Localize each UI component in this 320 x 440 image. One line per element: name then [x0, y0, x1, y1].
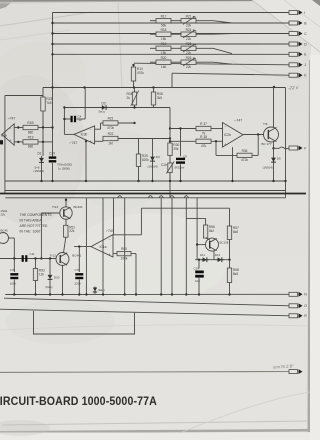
junction C7a / C11 line [13, 257, 15, 259]
svg-text:O: O [304, 304, 307, 308]
capacitor C4 [71, 116, 77, 122]
svg-text:−: − [10, 126, 12, 130]
svg-text:1M: 1M [108, 141, 113, 145]
diode D13 (phase) [93, 288, 97, 292]
wire IC2b output to Tr6 base [243, 134, 264, 136]
resistor R24 (preset) [181, 28, 196, 41]
junction rail A [272, 180, 274, 182]
wire rail G to connector R [0, 309, 289, 316]
connector pin J [289, 62, 306, 67]
wire vertical x161 [160, 198, 162, 295]
resistor R58 [227, 268, 239, 283]
junction diode line / C19 [198, 259, 200, 261]
resistor R13 [131, 67, 144, 81]
wire R53 to rail E [35, 281, 37, 295]
wire row R20 left stub [150, 61, 156, 63]
junction rail E [49, 293, 51, 295]
svg-text:22k: 22k [1, 213, 6, 217]
wire elbow up to R21 line [100, 123, 102, 129]
junction C9 / R37 line [179, 127, 181, 129]
svg-text:C11: C11 [30, 252, 35, 256]
resistor R21 [103, 117, 118, 130]
svg-text:(fase): (fase) [98, 288, 105, 292]
wire to C4 [64, 118, 70, 120]
op-amp IC1a [91, 229, 114, 257]
connector pin D [289, 42, 307, 47]
diode D1 [39, 156, 44, 165]
svg-text:100n: 100n [10, 282, 17, 286]
wire row7 drop to -22v rail [171, 73, 173, 87]
svg-text:3k5: 3k5 [157, 96, 162, 100]
svg-text:−: − [90, 127, 92, 131]
wire C11 line to Tr12 base [0, 258, 56, 260]
junction on left bus line E [51, 53, 53, 55]
svg-text:15k: 15k [161, 37, 167, 41]
wire R04 to D3 line [134, 105, 136, 108]
svg-text:R22: R22 [108, 132, 114, 136]
svg-text:+: + [90, 140, 92, 144]
junction row6 / R13 [132, 64, 134, 66]
junction R1B line / R23 branch [42, 126, 44, 128]
svg-text:R21: R21 [108, 117, 114, 121]
wire to connector B [53, 22, 290, 24]
svg-text:R19: R19 [161, 42, 167, 46]
resistor R51 [64, 225, 76, 237]
junction rail E [198, 293, 200, 295]
junction rail E [102, 293, 104, 295]
svg-text:15k: 15k [161, 51, 167, 55]
junction on left bus line D [51, 43, 53, 45]
wire IC1b to R1B [14, 127, 23, 129]
junction base bus / C11 line [40, 257, 42, 259]
wire row R24 join [213, 33, 232, 36]
junction rail E [185, 293, 187, 295]
svg-text:J: J [304, 63, 306, 67]
svg-text:(1N914): (1N914) [263, 165, 273, 169]
junction output / C7b [78, 245, 80, 247]
svg-text:R36: R36 [242, 149, 248, 153]
wire IC3b output to C4 loop [64, 133, 74, 135]
wire to connector E [53, 53, 290, 55]
wire R23 to D1 [42, 111, 44, 156]
svg-text:7k5: 7k5 [46, 101, 51, 105]
svg-text:R26: R26 [186, 56, 192, 60]
wire loop down to R57 [229, 208, 231, 226]
resistor R56 [203, 225, 215, 238]
wire rail to R04 [134, 88, 136, 93]
svg-text:10u: 10u [195, 279, 200, 283]
wire IC1a output to Tr12 side [74, 246, 91, 248]
svg-text:R05: R05 [121, 247, 127, 251]
transistor Tr13 [60, 207, 72, 219]
wire R58 to rail E [229, 283, 231, 295]
junction rail E [135, 293, 137, 295]
wire branch to R25 [138, 139, 140, 155]
wire feedback to R36 [216, 154, 237, 156]
wire rail C thick (y193.5) [0, 193, 306, 195]
wire R13 to -22V rail [133, 81, 135, 88]
wire C7b to rail E [78, 280, 80, 295]
capacitor C9 [176, 158, 185, 164]
wire down to C7a [13, 238, 15, 272]
wire loop across to R57 branch [141, 207, 229, 209]
wire IC3b inverting input right [95, 128, 101, 130]
wire branch to R56 top [186, 217, 205, 219]
wire to connector J row6 [134, 63, 289, 65]
svg-text:(1N914): (1N914) [34, 169, 44, 173]
svg-text:R20: R20 [161, 56, 167, 60]
wire top stub to R23 branch [5, 95, 43, 97]
wire row R26 right [196, 61, 213, 63]
wire C19b to rail E [198, 277, 200, 295]
svg-text:IC2b: IC2b [224, 133, 231, 137]
wire R21 to R04 branch [118, 122, 135, 124]
wire R23 top [42, 88, 44, 98]
svg-text:I: I [304, 11, 305, 15]
resistor R55 [117, 247, 131, 260]
wire D3 line to center bus [154, 107, 171, 109]
junction rail E [61, 293, 63, 295]
wire to connector C [53, 33, 290, 35]
wire row R25 join [213, 48, 232, 53]
wire R57 to R58 [229, 240, 231, 269]
svg-text:C19: C19 [49, 152, 55, 156]
resistor R1B [23, 121, 38, 134]
wire R19 to R25 [171, 47, 181, 49]
wire center vertical bus [169, 108, 171, 198]
svg-text:D12: D12 [215, 253, 221, 257]
junction emitter node [272, 147, 274, 149]
junction on R19 line [17, 141, 19, 143]
wire R19 to bus [38, 141, 53, 143]
junction rail A [40, 180, 42, 182]
resistor R19 [23, 136, 38, 149]
wire rail E (y294.5) [5, 293, 289, 295]
wire R55 branch to rail E [135, 254, 137, 295]
diode D12 [216, 257, 225, 262]
svg-text:+: + [10, 139, 12, 143]
svg-text:⌐747: ⌐747 [235, 119, 243, 123]
junction D3 line corner [63, 106, 65, 108]
preset R31 [161, 162, 174, 174]
junction center bus / R38 line [169, 140, 171, 142]
svg-text:D5: D5 [277, 157, 281, 161]
junction on left bus line C [51, 32, 53, 34]
wire center bus to R37 [170, 128, 196, 130]
wire down to D10 [49, 259, 51, 274]
svg-text:IC1b: IC1b [1, 134, 8, 138]
connector pin O [289, 303, 307, 308]
wire IC3b non-inverting input right [95, 140, 103, 142]
wire row R18 left stub [150, 33, 156, 35]
paper blotches [0, 75, 85, 225]
wire top-left vertical bus [52, 13, 54, 157]
wire row R17 left stub [150, 20, 156, 22]
svg-text:(1N914): (1N914) [148, 165, 158, 169]
svg-text:BC108: BC108 [220, 241, 229, 245]
op-amp IC2b triangle [223, 119, 244, 148]
svg-text:47k: 47k [201, 144, 207, 148]
svg-text:BC461: BC461 [74, 205, 84, 209]
svg-text:R1B: R1B [27, 121, 33, 125]
wire base bus down [40, 213, 42, 259]
pad at page edge [0, 140, 3, 144]
wire down to IC3b output [63, 108, 65, 135]
transistor Q15 at page edge [0, 233, 9, 244]
svg-text:R18: R18 [161, 28, 167, 32]
resistor R57 [227, 226, 239, 240]
wire vertical x103 [102, 198, 104, 295]
wire row R21 right [196, 20, 213, 22]
svg-text:⌐747: ⌐747 [106, 229, 114, 233]
wire D5 to rail [273, 165, 275, 182]
wire row R19 left stub [150, 47, 156, 49]
svg-text:Tr13: Tr13 [52, 205, 59, 209]
junction diode line / R57-R58 [228, 259, 230, 261]
resistor R23 [41, 97, 53, 111]
note text block [20, 213, 53, 234]
diode D4 [150, 155, 155, 164]
connector pin B [289, 21, 307, 26]
junction base / x197 vertical [196, 243, 198, 245]
wire rail D (y197.8) [5, 197, 285, 199]
junction R04 / D3 line [133, 106, 135, 108]
junction rail A [284, 180, 286, 182]
wire D3 line [64, 107, 153, 109]
svg-text:100k: 100k [121, 256, 128, 260]
diode D11 [201, 257, 210, 262]
wire feedback right leg [257, 135, 259, 156]
wire R55 stub [131, 253, 136, 255]
op-amp IC3b [70, 126, 95, 145]
diode D5 [271, 156, 276, 165]
svg-text:6k8: 6k8 [233, 272, 238, 276]
transistor Tr6 [264, 127, 279, 142]
svg-text:D11: D11 [200, 253, 205, 257]
wire IC1b to R19 [14, 141, 23, 143]
resistor R26 (preset) [181, 56, 196, 69]
wire preset R31 to rail [169, 173, 171, 182]
svg-text:R21: R21 [186, 14, 192, 18]
svg-text:+: + [109, 252, 111, 256]
wire C9 to rail [180, 164, 182, 181]
junction -22V rail / R13 branch [133, 86, 135, 88]
resistor R38 [196, 135, 211, 148]
wire R38 to IC2b non-inverting input [211, 140, 223, 142]
svg-text:⌐747: ⌐747 [8, 117, 16, 121]
resistor R18 [156, 28, 171, 41]
svg-text:29k: 29k [173, 147, 179, 151]
wire R17 to R21 [171, 20, 181, 22]
junction rail A [169, 180, 171, 182]
junction on R1B line [17, 126, 19, 128]
svg-text:R 37: R 37 [200, 122, 207, 126]
wire C9 top [180, 129, 182, 157]
wire to R56 [205, 218, 207, 225]
connector pin S [289, 369, 303, 374]
wire vertical x186 [185, 198, 187, 295]
svg-text:+: + [224, 142, 226, 146]
resistor R19 [156, 42, 171, 55]
junction rail A [179, 180, 181, 182]
wire C4 to rail branch [77, 118, 86, 120]
junction on IC3b drop [85, 140, 87, 142]
wire D10 to rail E [49, 282, 51, 295]
junction rail A [151, 180, 153, 182]
junction rail E [160, 293, 162, 295]
wire down to R53 [35, 259, 37, 269]
svg-text:22k: 22k [186, 51, 192, 55]
junction -22V rail / R08 branch [152, 86, 154, 88]
wire C19a to rail [52, 163, 54, 181]
svg-text:22k: 22k [186, 37, 192, 41]
wire elbow to R22 [102, 139, 104, 142]
op-amp IC1b [1, 117, 16, 146]
transistor Tr14 [206, 238, 219, 251]
wire C7a to rail E [13, 280, 15, 295]
junction rail E [171, 293, 173, 295]
transistor Tr12 [56, 253, 69, 266]
wire R18 to R24 [171, 33, 181, 35]
page right edge shadow [308, 60, 312, 432]
connector pin I [289, 10, 305, 15]
svg-text:220n: 220n [75, 282, 82, 286]
top edge dark strip [0, 0, 256, 2]
connector pin R [289, 313, 307, 318]
capacitor C11 [22, 255, 24, 262]
wire row R25 right [196, 47, 213, 49]
wire IC3b lower edge down to rail [85, 139, 87, 181]
svg-text:−: − [109, 238, 111, 242]
svg-text:680: 680 [28, 130, 34, 134]
junction output / R36 feedback [257, 133, 259, 135]
junction rail E [13, 293, 15, 295]
junction R19 line / D1 branch [42, 141, 44, 143]
wire bus to C19a [52, 155, 54, 158]
wire feedback left leg [215, 141, 217, 155]
svg-text:C7b: C7b [10, 268, 16, 272]
capacitor C19b [195, 271, 204, 274]
junction -22V rail / left bus [51, 86, 53, 88]
resistor R53 [33, 269, 45, 281]
svg-text:D10: D10 [54, 276, 60, 280]
wire loop up [140, 208, 142, 235]
connector pin K [289, 73, 307, 78]
wire D4 to rail [152, 164, 154, 182]
wire IC1a top pin right [113, 234, 141, 236]
resistor R21 (preset) [181, 14, 196, 27]
junction -22V rail / Tr6 collector [273, 86, 275, 88]
wire Tr6 collector to -22V rail [273, 87, 275, 128]
svg-text:D1: D1 [38, 152, 42, 156]
wire branch to D4 [152, 139, 154, 156]
wire diode line [195, 259, 230, 261]
svg-text:6k8: 6k8 [233, 230, 238, 234]
wire rail to R08 [153, 88, 155, 93]
diode D3 [96, 105, 112, 110]
junction D10 / C11 line [49, 257, 51, 259]
junction rail E [34, 293, 36, 295]
resistor R25 [136, 154, 149, 167]
svg-text:5w1u: 5w1u [99, 110, 106, 114]
svg-text:(R32)xx·: (R32)xx· [175, 166, 186, 170]
svg-text:BC 177: BC 177 [262, 142, 272, 146]
wire Tr12 emitter to rail E [62, 265, 64, 294]
wire R20 to R26 [171, 61, 181, 63]
svg-text:BC461: BC461 [72, 254, 82, 258]
connector pin E [289, 52, 307, 57]
wire R37 to IC2b inverting input [211, 128, 223, 130]
svg-text:C1b: C1b [161, 163, 167, 167]
title CIRCUIT-BOARD 1000-5000-77A [0, 396, 157, 409]
svg-text:22k: 22k [69, 229, 75, 233]
wire -22V rail [43, 87, 286, 89]
svg-text:Tr6: Tr6 [263, 122, 268, 126]
svg-text:1k8: 1k8 [161, 65, 166, 69]
junction rail E [228, 293, 230, 295]
svg-text:470k: 470k [137, 71, 144, 75]
creases [0, 12, 92, 26]
svg-text:470k: 470k [107, 126, 114, 130]
svg-text:12k: 12k [39, 272, 45, 276]
wire emitter to connector F [274, 147, 290, 149]
svg-text:R17: R17 [161, 14, 167, 18]
svg-text:2k: 2k [127, 96, 131, 100]
svg-text:(fase): (fase) [46, 285, 53, 289]
wire bottom line to connector S [0, 371, 289, 374]
wire to C19 bottom cap [198, 260, 200, 269]
svg-text:IC3b: IC3b [81, 133, 88, 137]
wire row R21 join [213, 21, 232, 23]
svg-text:R25: R25 [186, 42, 192, 46]
svg-text:R 38: R 38 [200, 135, 207, 139]
svg-text:820k: 820k [142, 158, 149, 162]
junction rail E [78, 293, 80, 295]
junction -22V rail / C4 branch [83, 86, 85, 88]
svg-text:22k: 22k [186, 65, 192, 69]
wire IC1a bottom pin to R55 [113, 253, 117, 255]
wire vertical x124.7 [124, 198, 126, 295]
wire vertical x86 [85, 198, 87, 295]
svg-text:CIRCUIT-BOARD 1000-5000-77A: CIRCUIT-BOARD 1000-5000-77A [0, 396, 157, 409]
resistor R37 [196, 122, 211, 135]
junction collector at rail [65, 199, 67, 201]
resistor R36 [237, 149, 252, 162]
wire Tr14 base [197, 244, 205, 246]
resistor R17 [156, 14, 171, 27]
wire IC2b power pin to rail [232, 147, 234, 181]
wire -22V rail to C4 node [84, 88, 86, 120]
capacitor C7a [10, 273, 18, 279]
top right corner fold [252, 0, 320, 52]
junction rail E [124, 293, 126, 295]
wire vertical x172 [171, 198, 173, 295]
connector pin C [289, 31, 307, 36]
junction R22 / center bus [169, 137, 171, 139]
wire D1 to rail [41, 165, 43, 181]
wire right vertical rail from -22V [285, 88, 287, 198]
capacitor C19a [49, 156, 57, 162]
wire Tr13 emitter to R51 [65, 219, 67, 226]
junction on left bus line B [51, 22, 53, 24]
resistor R22 [103, 132, 118, 145]
svg-text:D4: D4 [156, 155, 160, 159]
wire to connector I [53, 12, 290, 14]
wire from IC1a output branch to C7b [78, 247, 80, 272]
svg-text:R19: R19 [28, 136, 34, 140]
svg-text:1u (5000): 1u (5000) [58, 166, 70, 170]
junction rail A [51, 180, 53, 182]
